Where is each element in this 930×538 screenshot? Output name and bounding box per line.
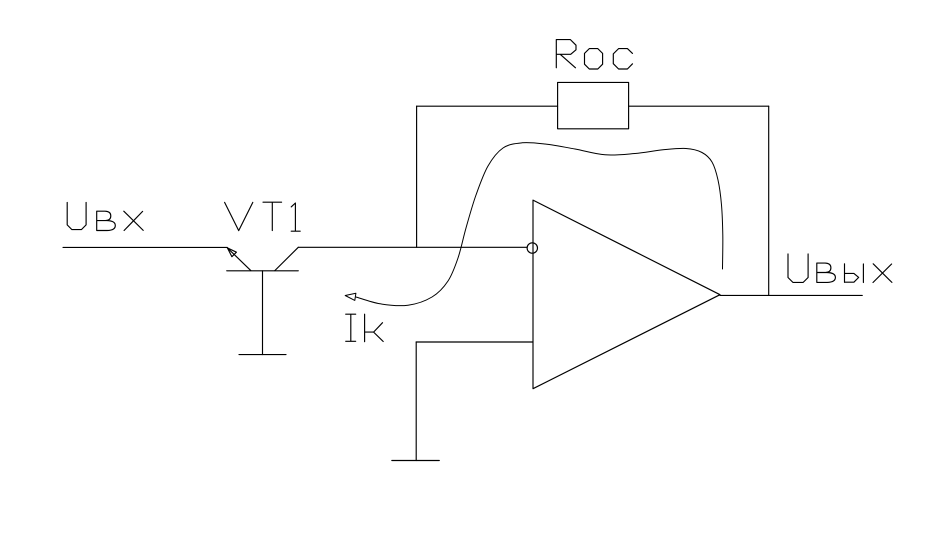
transistor VT1 base bar xyxy=(227,270,299,272)
feedback left vertical wire xyxy=(416,106,418,247)
transistor VT1 base lead xyxy=(262,271,264,355)
op-amp non-inverting input wire xyxy=(416,341,533,343)
output wire xyxy=(720,294,862,296)
transistor VT1 collector diagonal xyxy=(275,247,299,270)
leader arrowhead Iк xyxy=(345,293,356,300)
transistor VT1 emitter with arrowhead xyxy=(227,248,250,271)
feedback top wire right segment xyxy=(629,105,769,107)
ground xyxy=(392,460,440,462)
label VT1 xyxy=(225,202,301,231)
feedback right vertical wire xyxy=(768,106,770,295)
label Uвх xyxy=(67,202,143,230)
label Uвых xyxy=(788,254,892,283)
label Roc xyxy=(556,40,632,69)
op-amp U1 triangle xyxy=(533,200,720,389)
wire input Uвх to VT1 emitter xyxy=(63,246,227,248)
feedback top wire left segment xyxy=(417,105,558,107)
leader curve Iк (freehand annotation line) xyxy=(356,143,723,306)
wire collector to op-amp inverting input xyxy=(298,246,527,248)
label Iк xyxy=(346,314,384,342)
resistor Roc xyxy=(558,82,629,128)
wire non-inverting input to ground xyxy=(415,342,417,461)
transistor VT1 base terminal bar xyxy=(239,354,286,356)
op-amp inverting input circle xyxy=(527,243,537,253)
